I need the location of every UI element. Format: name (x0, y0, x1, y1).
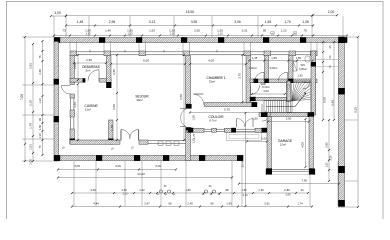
dim line bottom row2 (71, 205, 313, 207)
outer wall north (54, 38, 347, 43)
post corridor a (254, 79, 259, 83)
extension line top (211, 16, 213, 37)
post couloir facade e (262, 128, 268, 133)
svg-text:90: 90 (210, 202, 214, 206)
door chambre (193, 94, 203, 105)
svg-text:1,63: 1,63 (149, 29, 155, 33)
couloir south facade seg1 (186, 128, 204, 132)
svg-text:2,80: 2,80 (112, 69, 116, 75)
svg-text:1,55: 1,55 (271, 56, 277, 60)
post inner west bottom (70, 139, 75, 145)
svg-text:3,00: 3,00 (74, 164, 80, 168)
column post north wall (136, 37, 142, 43)
svg-text:4,00: 4,00 (208, 59, 214, 63)
couloir window sill a (204, 128, 212, 130)
post garage SW (266, 169, 272, 175)
post sejour/chambre (186, 104, 192, 109)
wall dressing divider 1 (265, 56, 269, 81)
corridor wall horizontal (250, 79, 317, 83)
svg-text:1,50: 1,50 (252, 117, 258, 121)
svg-text:1,35: 1,35 (252, 56, 258, 60)
washbasin sdb circle (286, 85, 290, 89)
extension line bottom (160, 161, 162, 206)
svg-text:2,00: 2,00 (328, 10, 335, 14)
garage west wall (267, 117, 272, 169)
window reveal line (103, 42, 105, 52)
facade pillar north (139, 51, 146, 56)
door dressing 1 (255, 72, 264, 81)
window reveal line (189, 42, 191, 52)
extension line top (65, 16, 67, 37)
svg-text:2,30: 2,30 (29, 100, 33, 106)
svg-text:1,50: 1,50 (297, 74, 303, 78)
svg-text:3,13: 3,13 (149, 20, 156, 24)
west window line d (73, 117, 75, 129)
facade pillar north (244, 51, 251, 56)
west window line c (70, 117, 72, 129)
door garage (262, 104, 271, 121)
svg-text:3,00m²: 3,00m² (299, 67, 307, 71)
debarras south wall left (70, 79, 85, 83)
circled 60 marker b (293, 31, 297, 35)
garage apron line (265, 174, 316, 176)
door couloir leaf east (245, 119, 253, 127)
post corridor c (288, 79, 293, 83)
dim line row2 (65, 24, 314, 26)
dim line 4,40 (77, 83, 79, 141)
window reveal line (76, 42, 78, 52)
svg-text:90: 90 (168, 202, 172, 206)
svg-text:1,50: 1,50 (121, 188, 127, 192)
extension line top (129, 16, 131, 37)
window reveal line (110, 42, 112, 52)
column post south wall (237, 155, 243, 161)
extension line top (88, 16, 90, 37)
facade pillar north (70, 51, 77, 56)
svg-text:3,00: 3,00 (286, 117, 292, 121)
post garage north e (308, 112, 315, 117)
column post north wall (218, 37, 224, 43)
dim line right inner (322, 41, 324, 121)
svg-text:2,80: 2,80 (284, 188, 290, 192)
window center tick (216, 50, 218, 52)
svg-text:2,05: 2,05 (194, 29, 200, 33)
balcony threshold a (316, 59, 339, 61)
svg-text:10,70: 10,70 (241, 160, 245, 167)
svg-text:1,36: 1,36 (192, 115, 196, 121)
extension line left (22, 36, 54, 38)
terrace step inner rect (229, 135, 259, 139)
double swing door sejour-couloir (180, 109, 186, 127)
column post south wall (134, 155, 140, 161)
window glazing north outer line (70, 51, 317, 53)
dim line left 7,00 (24, 36, 26, 162)
outer wall south (54, 156, 243, 161)
dim line 2,50 (73, 62, 107, 64)
dim line sejour w (116, 54, 118, 141)
inner wall west lower top (70, 94, 75, 98)
svg-text:1,80: 1,80 (185, 188, 191, 192)
door debarras (88, 70, 99, 81)
extension line bottom (241, 161, 243, 206)
extension line left (22, 138, 54, 140)
couloir window sill b (204, 130, 212, 132)
column post north wall (54, 37, 60, 43)
window reveal line (243, 42, 245, 52)
inner wall west upper (debarras) (70, 56, 75, 85)
dim line 3,75 (241, 54, 243, 103)
dim line 14,00 (57, 176, 233, 178)
svg-text:2,40: 2,40 (187, 202, 193, 206)
window reveal line (138, 42, 140, 52)
marker circles group b (204, 190, 215, 193)
chambre south wall (205, 103, 258, 107)
couloir door sill a (236, 128, 255, 130)
stair west wall (287, 81, 291, 102)
column post east wall low (338, 166, 345, 173)
west window line a (70, 98, 72, 110)
dim line 2,00 debarras (77, 54, 79, 81)
terrace planter 3 (174, 141, 179, 146)
dim line 6,00 (110, 63, 186, 65)
post inner east wall (311, 62, 316, 67)
dim line small rooms (248, 59, 314, 61)
svg-text:6,00: 6,00 (143, 59, 149, 63)
column post north wall (99, 37, 105, 43)
svg-text:2,25: 2,25 (329, 155, 333, 161)
svg-text:1,78: 1,78 (29, 123, 33, 129)
svg-text:1,00: 1,00 (29, 159, 33, 165)
terrace french door east leaf (130, 130, 139, 141)
outer wall west (54, 42, 59, 162)
couloir window sill d (216, 130, 225, 132)
svg-text:8,7m²: 8,7m² (209, 119, 216, 123)
svg-text:1,08: 1,08 (302, 20, 309, 24)
post debarras door jamb (83, 78, 86, 82)
svg-text:2,96: 2,96 (109, 20, 116, 24)
svg-text:1,10: 1,10 (38, 133, 42, 139)
column post south wall (199, 155, 205, 161)
svg-text:79: 79 (303, 29, 307, 33)
svg-text:2,10: 2,10 (242, 193, 248, 197)
inner wall west pillar (70, 110, 75, 117)
svg-text:1,10: 1,10 (127, 32, 133, 36)
svg-text:14,00: 14,00 (137, 172, 145, 176)
svg-text:5,75: 5,75 (224, 108, 230, 112)
terrace planter 1 (158, 141, 163, 146)
dim line 2,00 (312, 14, 338, 16)
svg-text:1,10: 1,10 (281, 29, 287, 33)
svg-text:1,10: 1,10 (217, 32, 223, 36)
column post east wall top (338, 37, 345, 43)
svg-text:95: 95 (263, 29, 267, 33)
column post east wall bottom (338, 200, 345, 207)
svg-text:1,50: 1,50 (241, 188, 247, 192)
dim line 3,00 sdb (251, 93, 286, 95)
svg-text:1,10: 1,10 (169, 32, 175, 36)
door wc (303, 83, 310, 90)
cuisine east wall (109, 120, 114, 144)
svg-text:1,48: 1,48 (77, 20, 84, 24)
cuisine south facade east stub (139, 140, 148, 144)
dim line left col2 (32, 43, 34, 162)
dim line 4,00 (189, 63, 247, 65)
svg-text:2,60m²: 2,60m² (249, 66, 257, 70)
svg-text:2,00: 2,00 (73, 63, 77, 69)
svg-text:5m²: 5m² (86, 69, 91, 73)
dim line 18,50 (65, 14, 313, 16)
svg-text:2,48: 2,48 (38, 69, 42, 75)
extension line bottom (337, 161, 339, 206)
couloir window sill c (216, 128, 225, 130)
window reveal line (250, 42, 252, 52)
svg-text:11m²: 11m² (85, 108, 91, 112)
couloir south facade seg3 (255, 128, 267, 132)
extension line top (53, 16, 55, 37)
svg-text:7,00: 7,00 (20, 94, 24, 100)
dim line 7,50 (238, 183, 340, 185)
column post south wall (54, 155, 60, 161)
south window glazing line a (148, 140, 186, 142)
post chambre south e (252, 102, 258, 107)
facade pillar north (264, 51, 271, 56)
terrace planter 2 (166, 141, 171, 146)
post cuisine SE corner (108, 139, 113, 145)
column post north wall (341, 37, 347, 43)
column post north wall (300, 37, 306, 43)
svg-text:1,25: 1,25 (325, 162, 329, 168)
svg-text:1,25: 1,25 (192, 138, 196, 144)
window glazing north inner line (70, 54, 317, 56)
svg-text:7,50: 7,50 (301, 178, 307, 182)
circled 60 marker a (271, 31, 275, 35)
door sdb (251, 86, 260, 95)
garage north wall (259, 113, 314, 117)
svg-text:3,06: 3,06 (234, 20, 241, 24)
svg-text:90: 90 (38, 118, 42, 121)
extension line top (311, 16, 313, 37)
extension line bottom (124, 161, 126, 206)
svg-text:34: 34 (300, 188, 304, 192)
svg-text:2,60: 2,60 (285, 193, 291, 197)
dim line right 9,25 (357, 36, 359, 208)
svg-text:3,69: 3,69 (90, 188, 96, 192)
extension line right (345, 36, 358, 38)
svg-text:1,93: 1,93 (226, 202, 232, 206)
svg-text:88: 88 (225, 188, 229, 192)
post sejour door n (186, 106, 191, 109)
wc toilet (305, 56, 310, 62)
svg-text:9,25: 9,25 (354, 107, 358, 113)
svg-text:1,74: 1,74 (297, 202, 303, 206)
window reveal line (182, 42, 184, 52)
dim line 4,00 garage (304, 118, 306, 168)
facade pillar north (310, 51, 317, 56)
svg-text:1,70: 1,70 (284, 20, 291, 24)
window center tick (163, 50, 165, 52)
svg-text:1,50: 1,50 (38, 124, 42, 130)
window reveal line (316, 42, 318, 52)
cuisine south facade (70, 140, 120, 144)
window reveal line (145, 42, 147, 52)
svg-text:4,00: 4,00 (301, 142, 305, 148)
post debarras SE corner (106, 82, 111, 88)
dim line right 6,40 (333, 41, 335, 121)
garage door line b (272, 170, 309, 172)
svg-text:3,00: 3,00 (263, 89, 269, 93)
window reveal line (310, 42, 312, 52)
svg-text:75: 75 (38, 55, 42, 58)
facade pillar north (183, 51, 190, 56)
wall dressing divider 2 (289, 56, 294, 81)
svg-text:15m²: 15m² (209, 80, 215, 84)
svg-text:2,80: 2,80 (325, 142, 329, 148)
svg-text:1,10: 1,10 (85, 32, 91, 36)
extension line left (22, 160, 54, 162)
extension line top (342, 16, 344, 37)
dim line right lower (328, 119, 330, 182)
extension line bottom (185, 161, 187, 206)
chambre east wall (246, 56, 251, 103)
inner wall east (wc/stair) (311, 51, 316, 115)
marker circles group a (159, 190, 170, 193)
svg-text:39m²: 39m² (136, 98, 142, 102)
svg-text:3,00: 3,00 (115, 164, 121, 168)
svg-text:2,93: 2,93 (29, 63, 33, 69)
inner wall west lower bottom (70, 129, 75, 144)
svg-text:1,36: 1,36 (258, 188, 264, 192)
couloir door sill b (236, 130, 255, 132)
dim line 3,00 garage (267, 120, 310, 122)
debarras south wall right (99, 79, 111, 83)
door couloir leaf west (237, 119, 245, 127)
column post east wall mid (338, 88, 345, 94)
svg-text:75: 75 (38, 145, 42, 148)
dim line 5,75 (189, 111, 266, 113)
door dressing 2 (278, 72, 287, 81)
svg-text:1,46: 1,46 (105, 29, 111, 33)
extension line top (173, 16, 175, 37)
door cuisine to porch (62, 86, 71, 95)
post garage north w (261, 112, 268, 117)
west window line b (73, 98, 75, 110)
svg-text:1,03: 1,03 (29, 144, 33, 150)
dim line row3 (53, 34, 348, 36)
dim line left col3 (41, 40, 43, 156)
terrace step outer rect (227, 133, 262, 141)
staircase (264, 81, 311, 113)
couloir south facade seg2 (225, 128, 236, 132)
svg-text:1,55: 1,55 (265, 20, 272, 24)
svg-text:6,40: 6,40 (331, 100, 335, 106)
svg-text:5,00: 5,00 (323, 97, 327, 103)
extension line right (345, 119, 358, 121)
svg-text:3,51: 3,51 (264, 202, 270, 206)
wall debarras/sejour (107, 56, 112, 83)
post couloir facade w (188, 128, 194, 133)
outer wall east (339, 42, 345, 208)
column post west wall upper (54, 79, 59, 85)
facade pillar north (289, 51, 296, 56)
south window glazing line b (148, 143, 186, 145)
svg-text:2,00: 2,00 (112, 104, 116, 110)
extension line bottom (231, 161, 233, 206)
svg-text:18,50: 18,50 (186, 10, 195, 14)
column post south wall (163, 155, 169, 161)
balcony threshold b (316, 65, 339, 67)
svg-text:1,62: 1,62 (139, 188, 145, 192)
svg-text:3,00m²: 3,00m² (269, 66, 277, 70)
svg-text:2,01: 2,01 (242, 29, 248, 33)
post corridor b (264, 79, 269, 83)
svg-text:1,00: 1,00 (54, 11, 61, 15)
window reveal line (69, 42, 71, 52)
svg-text:1,70: 1,70 (110, 125, 114, 131)
column post north wall (181, 37, 187, 43)
svg-text:2,10: 2,10 (122, 192, 128, 196)
dim line south 3m (57, 168, 177, 170)
extension line bottom (73, 161, 75, 206)
svg-text:73: 73 (62, 29, 66, 33)
garage door line a (272, 168, 309, 170)
facade pillar north (104, 51, 111, 56)
column post west wall (54, 116, 59, 122)
svg-text:3,00: 3,00 (155, 164, 161, 168)
post sejour door s (186, 127, 191, 130)
terrace french door west leaf (121, 130, 130, 141)
svg-text:1,10: 1,10 (38, 98, 42, 104)
post sdb south w (250, 97, 256, 101)
extension line bottom (141, 161, 143, 206)
post couloir facade m (231, 128, 236, 133)
column post south wall (96, 155, 102, 161)
svg-text:6,50: 6,50 (179, 94, 183, 100)
dim line 1,00 (50, 15, 67, 17)
extension line right (345, 206, 358, 208)
dim line 6,50 (183, 54, 185, 141)
column post north wall (263, 37, 269, 43)
svg-text:2,50: 2,50 (86, 58, 92, 62)
extension line right (345, 180, 358, 182)
dim line 10,70 (244, 112, 246, 207)
extension line top (257, 16, 259, 37)
couloir south facade pier (212, 128, 217, 132)
post garage SE (309, 169, 315, 175)
garage east wall (309, 117, 314, 169)
dim line 2,00 garage w (246, 140, 268, 142)
window center tick (89, 50, 91, 52)
extension line left (22, 84, 54, 86)
wall sejour/chambre lowest (186, 128, 191, 161)
window center tick (124, 50, 126, 52)
sdb south wall (252, 97, 287, 100)
extension line bottom (95, 161, 97, 206)
svg-text:WC: WC (301, 63, 306, 67)
duct shaft symbol (293, 62, 297, 72)
svg-text:4,40: 4,40 (73, 102, 77, 108)
dim line bottom row1 (71, 192, 309, 194)
svg-text:3,55: 3,55 (191, 20, 198, 24)
svg-text:12m²: 12m² (280, 143, 286, 147)
svg-text:2,67: 2,67 (144, 202, 150, 206)
svg-text:4,44: 4,44 (93, 202, 99, 206)
extension line bottom (309, 161, 311, 206)
svg-text:1,65: 1,65 (296, 56, 302, 60)
wall sejour/chambre upper (186, 56, 191, 105)
extension line left (22, 114, 54, 116)
svg-text:3,75: 3,75 (238, 73, 242, 79)
svg-text:2,00: 2,00 (261, 136, 267, 140)
